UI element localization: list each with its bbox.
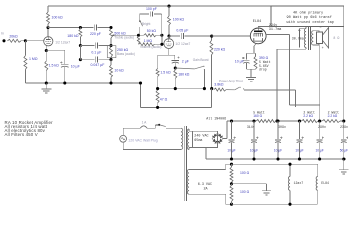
label C14 50 uF xyxy=(340,149,348,153)
svg-text:EL84: EL84 xyxy=(321,181,329,185)
label R10 180 k&#937; xyxy=(178,72,190,76)
wire bridge top stub xyxy=(217,131,219,133)
svg-text:1 MΩ: 1 MΩ xyxy=(29,57,38,61)
capacitor C11 filter 10 uF xyxy=(275,121,282,159)
label R9 1.5 k&#937; xyxy=(160,71,171,75)
wire volume to V2 grid xyxy=(154,43,164,45)
label PT 2A xyxy=(204,187,209,191)
label C3 0.1 &#181;F xyxy=(91,51,101,55)
svg-text:10 µF: 10 µF xyxy=(315,149,323,153)
svg-text:Gain Boost: Gain Boost xyxy=(193,58,209,62)
node gnd junction cathode xyxy=(45,81,48,84)
svg-text:10 µF: 10 µF xyxy=(71,65,80,69)
svg-text:EL84: EL84 xyxy=(253,20,261,24)
wire treble wiper to bright node xyxy=(116,34,144,36)
node gnd bus junction xyxy=(156,106,159,109)
svg-text:2.2 kΩ: 2.2 kΩ xyxy=(303,114,313,118)
wire cathode to bypass cap xyxy=(46,50,65,64)
label C4 0.047 &#181;F xyxy=(90,63,104,67)
node grid junction V1 xyxy=(24,39,27,42)
wire plate to tone stack xyxy=(48,27,111,29)
node gnd col4 xyxy=(298,157,301,160)
node treble pot top xyxy=(109,26,112,29)
wire HV top stub xyxy=(189,129,193,131)
capacitor C9 filter 10 uF xyxy=(229,121,236,159)
wire EL84 cathode xyxy=(254,44,256,54)
label speaker plus xyxy=(322,47,324,51)
node PS col1 top xyxy=(230,119,233,122)
label R13 3.8k&#937; xyxy=(214,83,224,87)
capacitor C13 filter 10 uF xyxy=(317,121,324,159)
wire R5 to bottom xyxy=(79,46,81,60)
label C10 10 uF xyxy=(250,149,258,153)
node gnd junction cap xyxy=(63,81,66,84)
ground heater center tap xyxy=(262,191,271,195)
label C5 100 pF xyxy=(146,7,157,11)
svg-text:100 kΩ: 100 kΩ xyxy=(173,18,185,22)
potentiometer VR3 1M volume xyxy=(139,43,155,46)
node PS col2 top xyxy=(252,119,255,122)
resistor R19 100 ohm humdinger lower xyxy=(230,184,233,204)
label R14 5.65V xyxy=(259,64,269,68)
label R15 5 Watt xyxy=(253,111,265,115)
label R2 1 M&#937; xyxy=(29,57,38,61)
capacitor C8 10uF EL84 cathode xyxy=(242,53,250,69)
label V3 31.7ma xyxy=(269,28,282,32)
wire B+ rail seg1 xyxy=(232,120,257,122)
label R15 160 &#937; xyxy=(253,114,262,118)
label VR1 Treble (audio) xyxy=(114,35,134,39)
label R19 100 &#937; xyxy=(240,190,250,194)
wire V1 cathode down xyxy=(45,46,47,51)
wire R12 bottom to gnd bus xyxy=(210,89,212,108)
node slope resistor top xyxy=(79,26,82,29)
svg-text:160 Ω: 160 Ω xyxy=(253,114,262,118)
inductor PT primary xyxy=(181,128,183,149)
svg-text:100 Ω: 100 Ω xyxy=(240,171,250,175)
label C1 10 &#181;F xyxy=(71,65,80,69)
capacitor C14 filter 50 uF xyxy=(341,121,348,159)
node input jack In xyxy=(1,32,6,43)
label C9 10 uF xyxy=(227,149,235,153)
core PT xyxy=(184,126,186,201)
node heater bottom left xyxy=(230,203,233,206)
svg-text:10 µF: 10 µF xyxy=(235,60,244,64)
capacitor C4 0.047uF xyxy=(95,57,97,63)
wire throttle to NFB xyxy=(244,90,295,107)
wire bottom cap xyxy=(80,59,111,61)
tube V2 triode 1/2 12ax7 xyxy=(164,39,174,49)
resistor R1 20k grid stopper xyxy=(8,39,26,42)
wire grid V1 xyxy=(25,40,43,42)
wire V2 plate resistor xyxy=(168,6,170,36)
switch S3 throttle xyxy=(235,87,244,90)
node V2 plate xyxy=(167,35,170,38)
note line1 4K ohm primary xyxy=(293,10,324,15)
svg-text:20kΩ: 20kΩ xyxy=(9,35,18,39)
inductor PT HV secondary xyxy=(187,129,189,150)
svg-text:Treble (audio): Treble (audio) xyxy=(114,35,134,39)
capacitor C6 0.05uF coupling xyxy=(181,33,183,39)
label C8 10 &#181;F xyxy=(235,60,244,64)
svg-text:12ax7: 12ax7 xyxy=(294,181,304,185)
heater coil EL84 xyxy=(316,164,318,204)
node B+ feed xyxy=(275,119,278,122)
svg-text:31.7ma: 31.7ma xyxy=(269,28,282,32)
label C2 220 pF xyxy=(90,32,101,36)
label R6 10 k&#937; xyxy=(114,69,124,73)
label speaker minus xyxy=(319,26,321,30)
resistor R13 3.8k throttle xyxy=(214,88,235,91)
note box transformer spec xyxy=(271,6,344,27)
resistor R11 47 ohm xyxy=(156,90,159,107)
resistor R9 1.5k cathode V2 xyxy=(156,55,159,88)
label C12 10 uF xyxy=(295,149,303,153)
label VR2 Bass (audio) xyxy=(117,52,135,56)
node throttle junction xyxy=(210,87,213,90)
arrow primary current xyxy=(298,28,305,48)
wire V1 plate up xyxy=(47,28,49,37)
svg-text:1.5 kΩ: 1.5 kΩ xyxy=(49,64,60,68)
svg-text:10 µF: 10 µF xyxy=(295,149,303,153)
svg-text:6.3 VAC: 6.3 VAC xyxy=(198,183,212,187)
ground preamp xyxy=(41,83,51,93)
switch S2 gain boost xyxy=(175,66,205,89)
label V2 1/2 12ax7 xyxy=(175,42,190,46)
label VR2 250 k&#937; xyxy=(117,48,129,52)
diode D2 xyxy=(212,139,218,144)
node tone gnd xyxy=(109,81,112,84)
note All Filters 450 V xyxy=(5,132,38,137)
note All resistors 1/4 watt xyxy=(5,124,48,129)
label R8 100 k&#937; xyxy=(173,18,185,22)
wire EL84 grid xyxy=(212,35,251,37)
label R4 1.5 k&#937; xyxy=(49,64,60,68)
diode D4 xyxy=(218,139,224,144)
node heater 12ax7 top xyxy=(288,163,291,166)
label PT 65ma xyxy=(194,139,202,143)
wire gnd bus horizontal xyxy=(141,106,212,108)
wire B+ to OT primary xyxy=(277,48,306,122)
svg-text:1.5 kΩ: 1.5 kΩ xyxy=(160,71,171,75)
capacitor C12 filter 10 uF xyxy=(297,121,304,159)
wire heater bottom line xyxy=(232,203,318,205)
resistor R2 1M grid leak xyxy=(24,56,27,70)
label R16 2 Watt xyxy=(303,111,315,115)
label R5 180 k&#937; xyxy=(67,34,79,38)
label speaker 8 ohm xyxy=(333,36,339,40)
capacitor C1 10uF cathode bypass V1 xyxy=(60,62,68,84)
label R11 47 &#937; xyxy=(160,98,168,102)
wire bright box right leg xyxy=(161,14,163,35)
wire mains top xyxy=(123,128,140,135)
wire mains bottom xyxy=(123,142,181,149)
inductor PT 6.3V winding xyxy=(187,170,189,195)
label R14 5 Watt xyxy=(259,60,271,64)
svg-text:180 kΩ: 180 kΩ xyxy=(67,34,79,38)
label V3 294v xyxy=(269,24,277,28)
wire humdinger to ground xyxy=(232,184,267,191)
svg-text:1/2 12ax7: 1/2 12ax7 xyxy=(175,42,190,46)
ground EL84 cathode xyxy=(246,78,256,82)
node cathode bus left xyxy=(156,87,159,90)
resistor R18 100 ohm humdinger upper xyxy=(230,164,233,184)
potentiometer VR2 250k bass xyxy=(110,47,113,60)
wire V2 cathode xyxy=(158,49,175,56)
label R12 220 k&#937; xyxy=(214,47,226,51)
node bright right xyxy=(160,34,163,37)
wire preamp ground rail xyxy=(25,82,140,84)
svg-text:0.047 µF: 0.047 µF xyxy=(90,63,104,67)
label V3 EL84 xyxy=(253,20,261,24)
svg-text:Bright: Bright xyxy=(142,22,150,26)
capacitor C10 filter 10 uF xyxy=(251,121,258,159)
node cathode bus mid xyxy=(174,87,177,90)
label R17 2.2 k&#937; xyxy=(328,114,338,118)
resistor R14 390 ohm EL84 cathode xyxy=(254,53,257,69)
svg-text:0.05 µF: 0.05 µF xyxy=(176,28,188,32)
label R14 drop xyxy=(259,67,267,71)
svg-text:Bass (audio): Bass (audio) xyxy=(117,52,135,56)
node heater 12ax7 bottom xyxy=(288,203,291,206)
node PS col4 top xyxy=(298,119,301,122)
resistor R4 1.5k cathode V1 xyxy=(45,51,48,84)
svg-text:220 kΩ: 220 kΩ xyxy=(214,47,226,51)
label Power Amp Throt xyxy=(219,79,243,83)
svg-text:220 pF: 220 pF xyxy=(90,32,101,36)
label rail 239v xyxy=(340,125,348,129)
resistor R8 100k plate load V2 xyxy=(168,16,171,25)
svg-text:1 A: 1 A xyxy=(142,121,148,125)
node tone mid xyxy=(109,44,112,47)
fuse F1 1A xyxy=(140,126,155,128)
node PS col6 top xyxy=(342,119,345,122)
wire EL84 screen xyxy=(266,35,320,106)
wire B+ drop to R3 xyxy=(47,6,49,12)
label R7 50 k&#937; xyxy=(147,29,157,33)
label C11 10 uF xyxy=(274,149,282,153)
tube V3 EL84 xyxy=(250,28,266,44)
node gnd col6 xyxy=(342,157,345,160)
wire ground rail xyxy=(206,158,346,160)
label heater EL84 xyxy=(321,181,329,185)
label heater 12ax7 xyxy=(294,181,304,185)
node PS col5 top xyxy=(318,119,321,122)
wire B+ rail seg4 xyxy=(340,120,344,122)
resistor R3 100k plate load V1 xyxy=(47,12,50,28)
wire mid cap xyxy=(80,45,111,47)
resistor R6 10k tail xyxy=(110,60,113,83)
note All electrolytics 80v xyxy=(5,128,46,133)
wiper volume arrow xyxy=(137,36,139,44)
wire bright right down xyxy=(161,35,163,44)
node B+ tap V2 xyxy=(167,5,170,8)
svg-text:2.2 kΩ: 2.2 kΩ xyxy=(328,114,338,118)
label C13 10 uF xyxy=(315,149,323,153)
node heater top left xyxy=(230,163,233,166)
svg-text:240 VAC: 240 VAC xyxy=(194,135,208,139)
source AC mains xyxy=(120,135,127,142)
node tone bottom xyxy=(109,58,112,61)
svg-text:65ma: 65ma xyxy=(194,139,202,143)
capacitor C3 0.1uF xyxy=(95,43,97,49)
resistor R10 180k boost xyxy=(174,68,177,89)
svg-text:30.7ma: 30.7ma xyxy=(292,36,304,40)
label mains 120 VAC Wall Plug xyxy=(128,138,157,142)
svg-text:1/2 12ax7: 1/2 12ax7 xyxy=(55,40,70,44)
wire gnd bus vertical left xyxy=(140,83,142,107)
wiper bass loop xyxy=(107,46,116,58)
resistor R16 2.2k xyxy=(302,120,319,123)
transformer HV secondary box xyxy=(193,131,218,147)
svg-text:10 µF: 10 µF xyxy=(274,149,282,153)
note line2 20 Watt pp 6k6 transf xyxy=(287,15,332,20)
wire bridge bottom stub xyxy=(217,144,219,148)
potentiometer VR1 500k treble xyxy=(110,29,113,46)
label V1 1/2 12ax7 xyxy=(55,40,70,44)
ground PS right xyxy=(339,159,348,174)
svg-text:50 kΩ: 50 kΩ xyxy=(147,29,157,33)
heater coil 12ax7 xyxy=(288,164,290,204)
core OT xyxy=(309,27,311,51)
svg-text:Volume (audio): Volume (audio) xyxy=(140,45,161,49)
label bridge All 1N4006 xyxy=(206,117,226,121)
label F1 1 A xyxy=(142,121,148,125)
capacitor C7 2uF boost xyxy=(172,55,180,68)
node bottom cap junction xyxy=(79,58,82,61)
wire R7 right xyxy=(156,34,162,36)
svg-text:8 Ω: 8 Ω xyxy=(333,36,339,40)
label R14 390 &#937; xyxy=(259,56,269,60)
svg-text:−: − xyxy=(319,26,321,30)
node cathode bus right xyxy=(203,87,206,90)
resistor R5 180k slope xyxy=(79,28,82,46)
wire heater top xyxy=(189,164,232,169)
svg-text:309v: 309v xyxy=(278,125,286,129)
label C7 2 &#181;F xyxy=(182,59,189,63)
resistor R15 160 ohm xyxy=(256,120,276,123)
label PT 240 VAC xyxy=(194,135,208,139)
label R1 20k&#937; xyxy=(9,35,18,39)
label VR3 Volume (audio) xyxy=(140,45,161,49)
node V1 plate xyxy=(46,26,49,29)
svg-text:In: In xyxy=(1,32,4,36)
label C6 0.05 &#181;F xyxy=(176,28,188,32)
svg-text:90 Watt pp 6k6 transf: 90 Watt pp 6k6 transf xyxy=(287,15,332,20)
switch S4 mains xyxy=(155,124,181,129)
label VR1 500 k&#937; xyxy=(114,32,126,36)
svg-text:100 kΩ: 100 kΩ xyxy=(52,16,64,20)
label R18 100 &#937; xyxy=(240,171,250,175)
inductor OT secondary xyxy=(312,31,314,45)
svg-text:180 kΩ: 180 kΩ xyxy=(178,72,190,76)
label R16 2.2 k&#937; xyxy=(303,114,313,118)
wire bright box top xyxy=(140,13,162,15)
node bright left xyxy=(137,34,140,37)
svg-text:+: + xyxy=(322,47,324,51)
svg-text:47 Ω: 47 Ω xyxy=(160,98,168,102)
node preamp gnd corner xyxy=(139,81,142,84)
wire B+ rail seg2 xyxy=(276,120,302,122)
node gnd col1 xyxy=(230,157,233,160)
node V1 cathode xyxy=(45,49,48,52)
node humdinger center xyxy=(230,182,233,185)
svg-text:with unused center tap: with unused center tap xyxy=(287,20,334,25)
wire B+ rail seg3 xyxy=(318,120,322,122)
inductor OT primary xyxy=(304,29,306,48)
svg-text:50 µF: 50 µF xyxy=(340,149,348,153)
svg-text:10 kΩ: 10 kΩ xyxy=(114,69,124,73)
tube V1 triode 1/2 12ax7 xyxy=(44,37,53,46)
svg-text:290v: 290v xyxy=(318,125,326,129)
svg-text:294v: 294v xyxy=(269,24,277,28)
node gnd col3 xyxy=(276,157,279,160)
svg-text:100 Ω: 100 Ω xyxy=(240,190,250,194)
svg-text:100 pF: 100 pF xyxy=(146,7,157,11)
svg-text:10 µF: 10 µF xyxy=(250,149,258,153)
svg-text:0.1 µF: 0.1 µF xyxy=(91,51,101,55)
label R17 2 Watt xyxy=(328,111,340,115)
label rail 314v xyxy=(247,125,255,129)
wire plate node to tube xyxy=(168,36,170,39)
node gnd col2 xyxy=(252,157,255,160)
wire bridge plus out xyxy=(223,121,232,139)
speaker SP1 xyxy=(317,28,329,49)
svg-text:2 µF: 2 µF xyxy=(182,59,189,63)
svg-text:drop: drop xyxy=(259,67,267,71)
svg-text:3.8kΩ: 3.8kΩ xyxy=(214,83,224,87)
svg-text:4K ohm primary: 4K ohm primary xyxy=(293,10,324,15)
wire cathode bus xyxy=(158,88,205,90)
wire down to R2 xyxy=(24,41,26,56)
label S2 Gain Boost xyxy=(193,58,209,62)
wire secondary to speaker xyxy=(313,31,320,121)
note line3 with unused center tap xyxy=(287,20,334,25)
node mid cap junction xyxy=(79,44,82,47)
wiper treble arrow xyxy=(112,34,116,36)
node volume top junction xyxy=(160,43,163,46)
node boost junction xyxy=(174,66,177,69)
resistor R7 50k xyxy=(144,34,157,37)
resistor R17 2.2k xyxy=(322,120,340,123)
wire EL84 plate to OT xyxy=(258,27,306,29)
label PT 6.3 VAC xyxy=(198,183,212,187)
wire coupling right xyxy=(185,35,212,37)
wire B+ right feed xyxy=(343,27,345,122)
label R3 100 k&#937; xyxy=(52,16,64,20)
svg-text:All 1N4006: All 1N4006 xyxy=(206,117,226,121)
wire HV bottom stub xyxy=(189,148,193,150)
label VR3 1 M&#937; xyxy=(144,39,153,43)
wire bridge minus out xyxy=(206,148,232,160)
capacitor C2 220pF treble xyxy=(94,25,96,31)
wire B+ top rail xyxy=(48,5,271,7)
wire R2 bottom xyxy=(24,69,26,83)
wire cathode box top xyxy=(246,52,255,54)
wire bright box left leg xyxy=(139,14,141,20)
label S1 Bright xyxy=(142,22,150,26)
note RA 10 Rocket Amplifier xyxy=(5,120,54,125)
label rail 290v xyxy=(318,125,326,129)
capacitor C5 100pF bright xyxy=(150,11,152,16)
node EL84 grid xyxy=(210,35,213,38)
wire heater bottom xyxy=(189,194,232,204)
svg-text:314v: 314v xyxy=(247,125,255,129)
resistor R12 220k grid leak xyxy=(210,36,213,89)
diode D1 xyxy=(212,133,218,138)
diode D3 xyxy=(218,133,224,138)
wire heater top line xyxy=(232,163,318,165)
